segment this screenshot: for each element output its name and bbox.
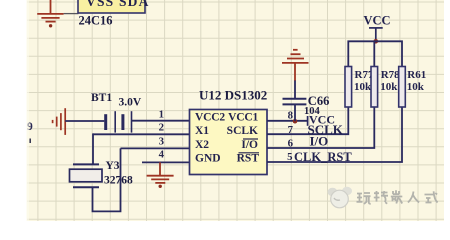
- junction dot on VCC bus: [374, 39, 379, 44]
- svg-text:VCC2: VCC2: [195, 111, 225, 123]
- svg-text:1: 1: [159, 108, 164, 120]
- svg-text:104: 104: [304, 106, 321, 117]
- svg-text:R61: R61: [407, 69, 426, 81]
- ground (below pin 4, red): [147, 162, 174, 183]
- wire (battery to pin 1 VCC2): [132, 120, 190, 122]
- svg-text:VCC: VCC: [364, 13, 391, 27]
- wire (pin 5 RST net CLK_RST): [267, 107, 402, 162]
- wire (pin 3 X2 row): [121, 147, 190, 149]
- svg-text:3.0V: 3.0V: [119, 97, 142, 109]
- IC U? 24C16 (component box cropped at top): [78, 0, 145, 13]
- svg-text:VCC1: VCC1: [228, 111, 258, 123]
- wire (ground to 24C16 part, top-left): [64, 13, 79, 15]
- white crop band right: [444, 0, 450, 221]
- 入: [408, 192, 419, 203]
- svg-text:R78: R78: [381, 69, 400, 81]
- battery BT1 plates: [106, 111, 132, 132]
- power port VCC (top right): [364, 13, 391, 41]
- ground GND (top-left, red earth symbol): [37, 0, 63, 22]
- junction dot below top-left ground: [49, 24, 52, 27]
- svg-text:X1: X1: [195, 125, 209, 137]
- svg-text:10k: 10k: [380, 81, 398, 93]
- pin name RST with overline: [237, 153, 260, 165]
- power port VCC (bar style, on pin 8): [308, 113, 335, 127]
- wire (earth to battery BT1): [65, 120, 104, 122]
- svg-text:10k: 10k: [407, 81, 425, 93]
- cropped mark at left edge: [29, 139, 31, 144]
- junction dot below pin-4 ground: [159, 185, 162, 188]
- wire (VCC bus to resistor tops): [348, 41, 402, 67]
- capacitor C66: [283, 80, 307, 121]
- svg-text:2: 2: [159, 122, 164, 134]
- power earth (inverted, above C66, red): [282, 50, 309, 81]
- 式: [425, 191, 438, 202]
- svg-text:BT1: BT1: [91, 92, 112, 104]
- svg-text:GND: GND: [195, 153, 221, 165]
- svg-text:VSS SDA: VSS SDA: [86, 0, 150, 9]
- svg-text:4: 4: [159, 149, 165, 161]
- resistor R77: [345, 67, 352, 108]
- wire (drop to crystal Y3 top): [92, 133, 94, 164]
- svg-text:24C16: 24C16: [79, 14, 113, 28]
- IC U12 DS1302 body: [190, 110, 268, 175]
- wire (crystal bottom loop to pin 3 X2): [93, 148, 121, 211]
- svg-text:CLK_RST: CLK_RST: [294, 150, 352, 164]
- svg-text:U12 DS1302: U12 DS1302: [199, 88, 267, 103]
- svg-text:X2: X2: [195, 139, 209, 151]
- svg-text:I/O: I/O: [241, 139, 258, 151]
- svg-text:Y3: Y3: [106, 160, 120, 172]
- svg-text:10k: 10k: [354, 81, 372, 93]
- svg-text:RST: RST: [237, 153, 260, 165]
- resistor R78: [371, 67, 378, 108]
- wire (pin 7 SCLK net): [267, 107, 348, 134]
- svg-text:8: 8: [288, 109, 294, 121]
- white crop band left: [0, 0, 27, 221]
- svg-text:5: 5: [287, 151, 292, 163]
- 转: [374, 191, 388, 204]
- resistor R61: [399, 67, 406, 108]
- 玩: [357, 193, 371, 204]
- svg-text:SCLK: SCLK: [227, 125, 258, 137]
- watermark text 玩转嵌入式 (drawn strokes): [357, 190, 438, 204]
- svg-text:I/O: I/O: [310, 134, 329, 149]
- wire (pin 4 GND stub): [142, 161, 190, 163]
- wire (pin 6 I/O net): [267, 107, 374, 148]
- pin name I/O with overline: [241, 139, 258, 151]
- junction dot at C66 / pin 8: [293, 119, 298, 124]
- power earth (left of battery, red, rotated): [53, 108, 66, 135]
- wire (pin 2 X1 to crystal drop): [93, 133, 190, 135]
- wire (pin 8 VCC1 to power port): [267, 120, 308, 122]
- crystal Y3: [70, 164, 103, 187]
- svg-text:3: 3: [159, 135, 165, 147]
- svg-text:32768: 32768: [104, 175, 133, 187]
- watermark logo (gray panda blob): [328, 187, 353, 208]
- 嵌: [391, 190, 403, 203]
